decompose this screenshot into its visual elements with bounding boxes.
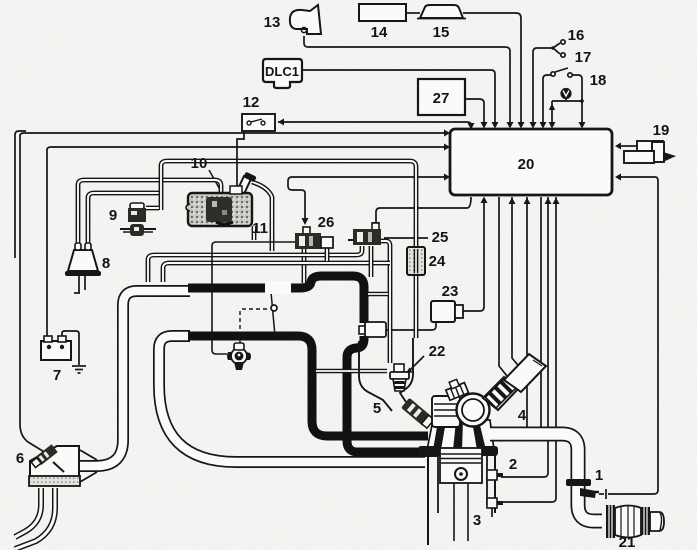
- hose valve 9 junction: [146, 161, 416, 338]
- ECU wire down to cylinder sensor 2: [501, 197, 560, 502]
- meter 6 duct mouth taper: [80, 450, 97, 482]
- main vacuum hose lower vertical to manifold: [347, 336, 426, 452]
- ECU wire down to engine head b: [540, 197, 542, 429]
- DLC1 connector: [263, 59, 302, 88]
- main vacuum hose upper run: [188, 276, 364, 323]
- egr valve 9: [120, 203, 156, 236]
- svg-text:10: 10: [191, 155, 208, 172]
- leader line 22: [406, 356, 424, 373]
- battery ground wire: [62, 331, 79, 365]
- ground symbol: [72, 366, 86, 373]
- ECU wire down to engine head a: [524, 197, 531, 429]
- svg-text:5: 5: [373, 400, 381, 417]
- tube tap on main hose: [368, 292, 388, 297]
- wire canister line to thermo valve: [212, 242, 295, 354]
- label 17: [575, 49, 592, 66]
- cylinder head black bands: [418, 446, 498, 457]
- wire from sensor 14 to 15: [406, 12, 420, 14]
- sensor 15: [417, 5, 466, 19]
- injector fitting below 5: [401, 398, 435, 429]
- long hose run upper: [148, 246, 362, 282]
- hose 26 right port: [327, 243, 334, 261]
- label 20: [518, 156, 535, 173]
- hose distributor 8 to valve 9: [88, 193, 161, 248]
- switch 18 contacts: [551, 68, 572, 77]
- stub under fitting 3: [491, 508, 493, 517]
- long hose run lower from canister: [163, 263, 390, 282]
- hose solenoid 26 to main hose: [302, 249, 307, 283]
- exhaust pipe: [490, 434, 602, 521]
- label 24: [429, 253, 446, 270]
- label DLC1: [265, 64, 299, 79]
- label 26: [318, 214, 335, 231]
- box 27: [418, 79, 465, 115]
- filter 24: [407, 247, 425, 275]
- wire horn 13 to ECU: [304, 36, 514, 129]
- label 25: [432, 229, 449, 246]
- label 5: [373, 400, 381, 417]
- sensor 14: [359, 4, 406, 21]
- label 1: [595, 467, 603, 484]
- svg-text:22: 22: [429, 343, 446, 360]
- hose 25 center port to main hose: [369, 246, 374, 277]
- svg-text:13: 13: [264, 14, 281, 31]
- hose canister spout down to run: [252, 182, 272, 251]
- label 11: [252, 220, 268, 237]
- white gap where lines cross hose: [265, 281, 291, 294]
- svg-text:6: 6: [16, 450, 24, 467]
- airflow meter 6: [29, 444, 80, 486]
- label 3: [473, 512, 481, 529]
- svg-text:15: 15: [433, 24, 450, 41]
- check valve 22: [390, 364, 409, 391]
- tube from hose to check valve 22: [316, 369, 387, 374]
- label 6: [16, 450, 24, 467]
- ECU wire down to intake duct b: [509, 197, 528, 382]
- label 22: [429, 343, 446, 360]
- label 18: [590, 72, 607, 89]
- solenoid valve 25: [348, 223, 381, 245]
- svg-text:12: 12: [243, 94, 260, 111]
- svg-text:16: 16: [568, 27, 585, 44]
- wire ECU bottom to solenoid 25: [373, 197, 472, 229]
- wire switch 18 right down: [572, 75, 586, 129]
- wire relay 12 down to canister: [234, 131, 245, 193]
- hose distributor 8 to canister: [78, 180, 221, 248]
- lower duct from hose 2 sweeping to engine underside: [159, 336, 425, 462]
- ECU wire down to cylinder sensor 3: [501, 197, 552, 477]
- label 7: [53, 367, 61, 384]
- second vacuum hose to manifold: [188, 336, 428, 436]
- vsv 23: [431, 301, 463, 322]
- svg-text:9: 9: [109, 207, 117, 224]
- label 14: [371, 24, 388, 41]
- wire DLC1 to ECU: [302, 70, 499, 129]
- relay 12: [242, 114, 275, 131]
- svg-text:DLC1: DLC1: [265, 64, 299, 79]
- ECU wire down to intake duct a: [499, 197, 513, 388]
- label 4: [518, 407, 527, 424]
- svg-text:20: 20: [518, 156, 535, 173]
- svg-text:19: 19: [653, 122, 670, 139]
- purge port white detail on canister: [230, 186, 242, 194]
- dashed vacuum line vertical: [239, 311, 241, 344]
- solenoid valve 26: [295, 227, 333, 249]
- air duct from meter 6 up to main hose: [79, 291, 190, 466]
- label 10: [191, 155, 208, 172]
- meter 6 inlet hoses: [15, 488, 55, 549]
- svg-text:4: 4: [518, 407, 527, 424]
- hose solenoid 25 to check valve 22: [380, 241, 390, 363]
- wire switch 18 left to ECU: [540, 75, 552, 129]
- wire connector 19 to ECU: [615, 143, 637, 150]
- label 15: [433, 24, 450, 41]
- svg-text:25: 25: [432, 229, 449, 246]
- cylinder walls: [428, 447, 495, 545]
- label 13: [264, 14, 281, 31]
- wire from battery 7 to ECU: [47, 144, 450, 339]
- svg-text:7: 7: [53, 367, 61, 384]
- hose canister bottom port: [252, 226, 257, 240]
- svg-text:8: 8: [102, 255, 110, 272]
- wire ECU to solenoid 26: [288, 174, 450, 226]
- horn 13: [290, 5, 321, 34]
- wire from fitting to vsv 23: [386, 322, 436, 330]
- label 9: [109, 207, 117, 224]
- dashed vacuum line horizontal: [242, 308, 269, 310]
- throttle body 4: [432, 354, 546, 427]
- wire vsv 23 to ECU bottom: [462, 197, 488, 312]
- wire ECU to relay 12: [278, 119, 475, 130]
- svg-text:2: 2: [509, 456, 517, 473]
- label 21: [619, 534, 636, 550]
- wire oxygen sensor 1 to ECU right side: [599, 174, 658, 500]
- cylinder side fittings: [487, 470, 503, 508]
- label 16: [568, 27, 585, 44]
- label 8: [102, 255, 110, 272]
- inner nested wire top-left: [15, 131, 26, 258]
- charcoal canister 11: [186, 172, 257, 226]
- svg-text:21: 21: [619, 534, 636, 550]
- wire terminals 16 17 to ECU: [530, 40, 566, 129]
- svg-text:23: 23: [442, 283, 459, 300]
- leader line 10: [209, 170, 228, 204]
- svg-text:24: 24: [429, 253, 446, 270]
- svg-text:11: 11: [252, 220, 268, 237]
- distributor 8: [65, 243, 101, 293]
- wire from airflow sensor 6 to ECU, left column: [20, 130, 450, 454]
- battery 7: [41, 336, 71, 360]
- catalytic converter 21: [606, 505, 664, 538]
- svg-text:1: 1: [595, 467, 603, 484]
- wire box 27 to ECU: [465, 99, 488, 129]
- manifold port funnel 5: [359, 338, 413, 411]
- svg-text:27: 27: [433, 90, 450, 107]
- leader line 25: [384, 237, 428, 239]
- connector 19: [624, 141, 676, 163]
- svg-text:17: 17: [575, 49, 592, 66]
- indicator lamp: [560, 88, 571, 99]
- label 19: [653, 122, 670, 139]
- oxygen sensor 1: [580, 488, 599, 498]
- label 2: [509, 456, 517, 473]
- exhaust flange: [566, 479, 591, 486]
- label 23: [442, 283, 459, 300]
- wire sensor 15 to ECU: [463, 13, 525, 129]
- diagonal line with node: [271, 292, 277, 336]
- svg-text:18: 18: [590, 72, 607, 89]
- in-line fitting on thick hose: [359, 322, 386, 337]
- thermo valve under canister: [227, 343, 251, 370]
- svg-text:14: 14: [371, 24, 388, 41]
- lamp bus wire to ECU: [549, 99, 583, 129]
- svg-text:26: 26: [318, 214, 335, 231]
- cylinder and piston 3: [440, 448, 482, 541]
- svg-text:3: 3: [473, 512, 481, 529]
- label 12: [243, 94, 260, 111]
- intake manifold runners: [427, 420, 494, 450]
- label 27: [433, 90, 450, 107]
